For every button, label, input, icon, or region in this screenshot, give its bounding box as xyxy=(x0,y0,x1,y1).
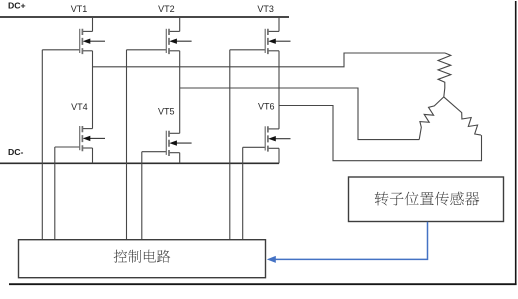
resistor winding B (lower-left) xyxy=(419,97,444,140)
wire phase C (VT3/VT6 node to winding) xyxy=(279,106,482,161)
svg-text:VT6: VT6 xyxy=(258,102,275,112)
svg-text:VT5: VT5 xyxy=(158,106,175,116)
svg-text:DC+: DC+ xyxy=(8,0,26,10)
svg-text:VT2: VT2 xyxy=(158,4,175,14)
wire VT3 drain to DC+ xyxy=(278,17,280,31)
svg-text:VT1: VT1 xyxy=(71,4,88,14)
DC+ bus xyxy=(0,16,289,18)
transistor VT3 xyxy=(230,29,291,54)
DC- bus xyxy=(0,162,279,164)
wire VT2 drain to DC+ xyxy=(179,17,181,31)
svg-text:VT3: VT3 xyxy=(257,4,274,14)
transistor VT2 xyxy=(127,29,192,54)
svg-text:DC-: DC- xyxy=(8,147,24,157)
wire VT6 gate to control xyxy=(242,147,244,239)
wire VT2 source / VT5 drain (phase B leg) xyxy=(179,51,181,134)
svg-text:VT4: VT4 xyxy=(71,102,88,112)
block rotor position sensor box xyxy=(349,177,504,222)
wire VT2 gate to control xyxy=(126,50,128,240)
block control circuit box xyxy=(19,240,266,278)
wire VT6 source to DC- xyxy=(278,148,280,163)
transistor VT1 xyxy=(42,29,105,54)
transistor VT5 xyxy=(142,131,192,156)
transistor VT4 xyxy=(55,126,105,151)
wire VT1 source / VT4 drain (phase A leg) xyxy=(92,51,94,129)
transistor VT6 xyxy=(243,126,291,151)
wire VT4 gate to control xyxy=(54,147,56,240)
resistor winding A (top) xyxy=(438,53,451,97)
wire VT1 gate to control xyxy=(41,50,43,240)
wire VT5 source to DC- xyxy=(179,153,181,164)
resistor winding C (lower-right) xyxy=(444,97,481,135)
wire VT4 source to DC- xyxy=(92,148,94,163)
wire VT3 gate to control xyxy=(229,50,231,240)
wire sensor feedback (blue arrow) xyxy=(276,222,428,260)
wire VT5 gate to control xyxy=(141,152,143,240)
wire VT3 source / VT6 drain (phase C leg) xyxy=(278,51,280,129)
wire VT1 drain to DC+ xyxy=(92,17,94,31)
label 转子位置传感器 xyxy=(375,192,480,206)
wire phase A (VT1/VT4 node to winding) xyxy=(93,53,446,67)
label 控制电路 xyxy=(114,250,171,263)
wire phase B (VT2/VT5 node to winding) xyxy=(180,88,420,140)
